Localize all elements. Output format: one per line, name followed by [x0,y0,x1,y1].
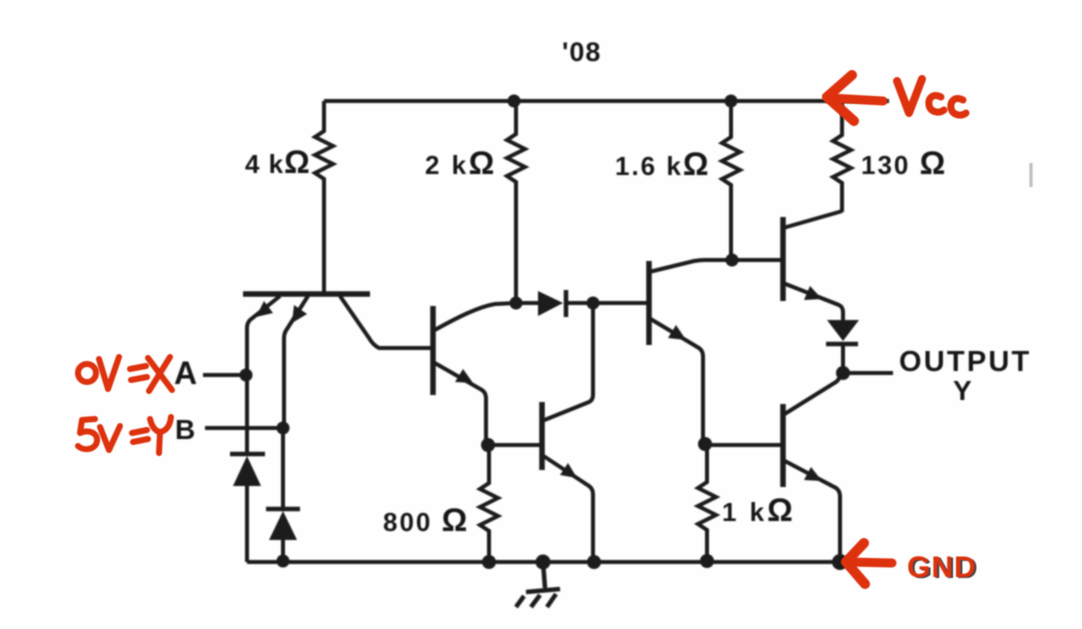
transistor Q6 emitter arrow [804,467,822,481]
wire Vcc top rail [324,99,889,103]
red label 0V=X [78,357,172,391]
transistor Q3 collector [542,303,593,421]
node Q2 emitter / 800 / Q3 base [481,438,495,452]
node 800 rail [482,555,496,569]
wire D3 to ground rail [281,539,285,562]
transistor Q1 emitter 1 [247,296,280,375]
transistor Q3 emitter [542,455,593,562]
transistor Q4 collector [649,260,731,272]
resistor R5 800 ohm [480,445,498,562]
svg-text:GND: GND [907,551,977,584]
node Q6 emitter / GND rail end [832,554,848,570]
transistor Q6 emitter [783,460,840,562]
svg-text:A: A [174,355,197,391]
diode D2 cathode bar [230,452,265,457]
red annotations [78,75,979,585]
node D3 rail [277,555,290,568]
wire D1 to node C [566,301,647,305]
wire input B [205,426,283,430]
node Q3 emitter rail [587,555,601,569]
ground symbol [516,562,560,607]
transistor Q3 bar [539,402,545,470]
resistor R4 130 ohm [833,101,851,212]
diode D1 triangle [538,291,563,316]
transistor Q5 bar [780,217,786,301]
node top rail / 1.6k [725,95,738,108]
node 1k rail [700,554,714,568]
wire ground bottom rail [247,560,840,564]
transistor Q4 emitter [649,318,703,444]
transistor Q1 emitter 2 arrow [292,305,307,323]
node top rail / 2k [508,95,521,108]
diode D2 triangle [233,456,261,486]
svg-text:B: B [175,414,195,445]
svg-text:800 Ω: 800 Ω [383,502,469,538]
red label Vcc [897,79,922,113]
node Q4 emitter / 1k / Q6 base [698,437,712,451]
resistor R2 2k ohm [507,101,525,303]
diode D1 interstage: anode wire [516,301,538,305]
transistor Q2 emitter [433,362,486,443]
node ground stem [536,555,551,570]
transistor Q5 darlington top: base wire [732,258,781,262]
diode D1 cathode bar [564,290,569,317]
diode D4 output level shift: triangle [827,320,859,341]
resistor R3 1.6k ohm [722,101,740,260]
red arrow Vcc [827,75,883,121]
diode D4 cathode bar [826,342,858,347]
transistor Q2 emitter arrow [455,369,473,383]
transistor Q5 emitter arrow [804,286,822,300]
svg-text:2 kΩ: 2 kΩ [425,145,497,181]
transistor Q5 collector [783,211,842,228]
transistor Q5 emitter [783,283,843,321]
transistor Q2 collector [433,303,516,331]
transistor Q1 emitter 2 [284,296,308,428]
transistor Q4 emitter arrow [668,325,686,340]
transistor Q2 phase splitter: bar [430,306,436,395]
red label 5v=Y [78,417,171,453]
node 1.6k / Q4 coll / Q5 base [726,254,739,267]
diode D3 triangle [269,511,297,540]
diode D2 input A clamp: wire [245,375,249,453]
node output Y [836,366,850,380]
transistor Q6 collector [783,374,840,415]
wire D2 to ground rail [245,485,249,562]
transistor Q3 pulldown: base wire [489,443,540,447]
transistor Q1 emitter 1 arrow [256,301,273,317]
transistor Q1 multi-emitter input: base bar [243,291,370,297]
transistor Q3 emitter arrow [560,463,577,478]
transistor Q6 bar [780,404,786,487]
transistor Q4: bar [646,261,652,345]
node C diode/Q4 base/Q3 collector [587,297,600,310]
diode D3 input B clamp: wire [281,428,285,508]
svg-text:1 kΩ: 1 kΩ [722,492,796,528]
wire output [843,371,893,375]
transistor Q1 collector [340,296,431,348]
node input B [277,422,290,435]
red arrow GND [846,543,892,584]
svg-text:1.6 kΩ: 1.6 kΩ [615,146,710,182]
node 2k / diode anode [510,297,523,310]
diode D3 cathode bar [266,507,300,512]
svg-text:Y: Y [953,375,972,406]
artifact gray dash right margin [1030,163,1033,187]
svg-text:'08: '08 [562,37,601,67]
svg-text:130 Ω: 130 Ω [861,145,947,181]
svg-text:4 kΩ: 4 kΩ [245,144,311,180]
wire D4 to output node [841,344,845,373]
resistor R6 1k ohm [698,444,716,562]
resistor R1 4k ohm [315,101,333,296]
transistor Q6 pulldown output: base wire [707,443,781,447]
svg-text:OUTPUT: OUTPUT [899,346,1031,378]
node input A [240,369,253,382]
wire input A [203,373,246,377]
